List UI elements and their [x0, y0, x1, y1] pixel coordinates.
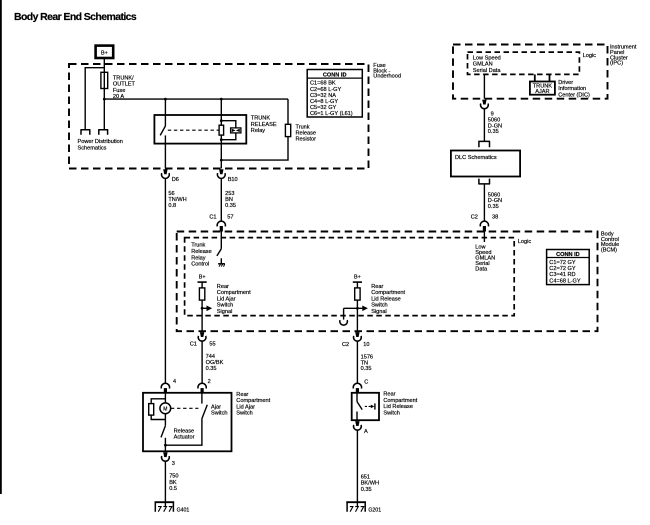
svg-text:Trunk: Trunk	[296, 124, 310, 130]
wire 750 BK	[164, 461, 166, 507]
svg-text:Compartment: Compartment	[217, 290, 251, 296]
label wire 744 OG/BK 0.35	[206, 354, 224, 372]
svg-text:2: 2	[208, 379, 211, 385]
label wire 56 TN/WH 0.8	[168, 191, 186, 209]
svg-text:Actuator: Actuator	[174, 435, 195, 441]
svg-text:Power Distribution: Power Distribution	[78, 139, 123, 145]
svg-text:C2: C2	[342, 342, 349, 348]
ajar switch blade	[202, 405, 207, 419]
svg-text:0.35: 0.35	[206, 366, 217, 372]
release actuator switch blade	[161, 426, 165, 438]
svg-text:Schematics: Schematics	[78, 146, 107, 152]
svg-text:Lid Release: Lid Release	[371, 296, 401, 302]
svg-text:Resistor: Resistor	[296, 137, 317, 143]
svg-text:57: 57	[227, 215, 233, 221]
junction dot coil top	[220, 119, 223, 122]
label Ajar Switch	[211, 404, 227, 416]
svg-text:C3=32 NA: C3=32 NA	[310, 93, 336, 99]
svg-text:OG/BK: OG/BK	[206, 360, 224, 366]
signal arrow (ajar)	[202, 306, 212, 312]
battery feed B+ terminal	[96, 46, 114, 58]
svg-text:3: 3	[172, 461, 175, 467]
svg-text:CONN ID: CONN ID	[323, 72, 347, 78]
svg-text:Switch: Switch	[371, 303, 387, 309]
connector C1 pin 55 (BCM exit)	[190, 332, 216, 347]
svg-text:C3=41 RD: C3=41 RD	[549, 272, 575, 278]
connector B10 (fuse block exit)	[217, 169, 237, 183]
label Low Speed GMLAN Serial Data (BCM)	[475, 244, 495, 272]
wire switch to internal ground	[220, 258, 222, 263]
svg-text:Serial Data: Serial Data	[473, 68, 502, 74]
svg-text:Signal: Signal	[217, 309, 233, 315]
motor parallel element	[149, 399, 166, 420]
svg-text:Lid Ajar: Lid Ajar	[217, 296, 236, 302]
wire B+ to pull-up resistor	[201, 282, 203, 288]
svg-text:Release: Release	[191, 249, 212, 255]
wire B+ down to branch node	[103, 59, 105, 99]
wire DIC stub right	[549, 74, 551, 81]
relay suppression element box	[231, 128, 241, 133]
wire DIC stub left	[534, 74, 536, 81]
wire 1576 TN	[356, 341, 358, 383]
svg-text:Logic: Logic	[518, 239, 532, 245]
connector C1 pin 57 (BCM entry)	[209, 215, 233, 232]
wire actuator switch to pin 3	[164, 438, 166, 452]
wire pull-up to BCM exit (release)	[356, 300, 358, 331]
wire bus down into relay (switch side)	[164, 99, 166, 126]
relay K1 TRUNK RELEASE relay box	[154, 115, 246, 144]
wire 744 OG/BK	[201, 341, 203, 383]
svg-text:Lid Ajar: Lid Ajar	[236, 404, 255, 410]
connector 9 (IPC exit)	[481, 100, 494, 118]
svg-text:0.5: 0.5	[169, 486, 177, 492]
wire resistor to coil output	[221, 137, 288, 161]
body control module BCM dashed box	[177, 232, 598, 332]
label TRUNK RELEASE Relay	[251, 116, 277, 135]
svg-text:Rear: Rear	[383, 392, 395, 398]
wire branch to logic input socket	[343, 308, 345, 319]
svg-text:253: 253	[225, 191, 234, 197]
svg-text:AJAR: AJAR	[535, 89, 549, 95]
svg-text:DLC Schematics: DLC Schematics	[455, 155, 497, 161]
svg-text:4: 4	[173, 379, 176, 385]
svg-text:OUTLET: OUTLET	[113, 81, 136, 87]
svg-text:Lid Release: Lid Release	[383, 404, 413, 410]
junction dot relay switch feed	[164, 98, 167, 101]
label Low Speed GMLAN Serial Data (IPC)	[473, 56, 502, 74]
wire 5060 D-GN lower	[483, 184, 485, 221]
wire bus to power distribution bracket 2	[103, 99, 105, 130]
wire 56 TN/WH left run	[164, 179, 166, 384]
connector C2 pin 10 (BCM exit)	[342, 332, 370, 348]
wire ajar switch return	[165, 419, 202, 446]
svg-text:Fuse: Fuse	[113, 88, 125, 94]
wire branch to power distribution bracket 1	[85, 68, 104, 130]
connector pin C (release switch entry)	[353, 380, 368, 393]
label Power Distribution Schematics	[78, 139, 123, 151]
connector C2 pin 38 (BCM entry)	[471, 214, 499, 231]
resistor R trunk release resistor	[285, 124, 290, 136]
svg-text:Trunk: Trunk	[191, 243, 205, 249]
label Release Actuator	[174, 428, 195, 440]
label Rear Compartment Lid Ajar Switch	[236, 392, 270, 417]
svg-text:TN/WH: TN/WH	[168, 197, 186, 203]
junction dot coil bottom	[220, 138, 223, 141]
svg-text:Relay: Relay	[191, 255, 206, 261]
svg-text:Driver: Driver	[558, 80, 573, 86]
svg-text:C6=1 L-GY (L61): C6=1 L-GY (L61)	[310, 111, 353, 117]
svg-text:GMLAN: GMLAN	[473, 62, 493, 68]
wire 5060 D-GN upper	[483, 109, 485, 142]
wire coil suppression loop	[221, 121, 236, 140]
junction dot relay coil feed	[220, 98, 223, 101]
svg-text:Compartment: Compartment	[236, 398, 270, 404]
instrument panel cluster IPC dashed box	[453, 45, 608, 99]
svg-text:Compartment: Compartment	[371, 290, 405, 296]
B+ pull-up (release switch signal)	[353, 275, 362, 283]
svg-text:D6: D6	[172, 177, 179, 183]
CONN ID table (fuse block)	[307, 70, 362, 118]
svg-text:750: 750	[169, 474, 178, 480]
svg-text:C2=72 GY: C2=72 GY	[549, 266, 576, 272]
wire GMLAN from IPC logic	[483, 74, 485, 98]
svg-text:Control: Control	[191, 262, 209, 268]
svg-text:Ajar: Ajar	[211, 404, 221, 410]
svg-text:0.35: 0.35	[361, 366, 372, 372]
momentary actuator bar	[374, 403, 376, 409]
DLC schematics box	[451, 151, 520, 177]
label wire 651 BK/WH 0.35	[361, 474, 379, 493]
svg-text:B10: B10	[228, 177, 238, 183]
svg-text:C1: C1	[190, 342, 197, 348]
svg-text:BK/WH: BK/WH	[361, 481, 379, 487]
wire coil output	[220, 135, 222, 168]
svg-text:651: 651	[361, 474, 370, 480]
rear compartment lid release switch box	[352, 393, 379, 420]
wire B+ to pull-up resistor (release)	[356, 282, 358, 288]
svg-text:B+: B+	[354, 275, 361, 281]
off-page connector bracket (power distribution feed 1)	[80, 130, 90, 135]
wire 651 BK/WH	[356, 430, 358, 507]
svg-text:0.35: 0.35	[225, 203, 236, 209]
label Rear Compartment Lid Release Switch	[383, 392, 417, 417]
connector pin 2 (actuator entry)	[198, 379, 211, 393]
svg-text:Switch: Switch	[211, 411, 227, 417]
connector pin A (release switch exit)	[354, 421, 369, 435]
svg-text:B+: B+	[101, 51, 108, 57]
svg-text:55: 55	[209, 342, 215, 348]
TRUNK AJAR indicator box	[530, 82, 555, 95]
label Fuse Block - Underhood	[373, 63, 401, 80]
svg-text:Body Rear End Schematics: Body Rear End Schematics	[14, 11, 137, 23]
junction dot resistor return	[220, 159, 223, 162]
label Body Control Module (BCM)	[601, 232, 619, 254]
suppression bowtie glyph	[232, 129, 240, 132]
svg-text:(IPC): (IPC)	[610, 61, 623, 67]
svg-text:38: 38	[492, 214, 498, 220]
BCM logic dashed box	[185, 238, 515, 316]
svg-text:0.35: 0.35	[488, 204, 499, 210]
label Driver Information Center (DIC)	[558, 80, 590, 99]
wire pin4 to motor	[164, 393, 166, 403]
svg-text:Rear: Rear	[217, 284, 229, 290]
label wire 253 BN 0.35	[225, 191, 236, 209]
wire switch to pin A	[356, 412, 358, 421]
B+ pull-up (ajar switch signal)	[198, 275, 207, 283]
label wire 5060 D-GN 0.35 (upper)	[488, 118, 502, 136]
trunk release relay control switch blade	[217, 249, 221, 256]
label wire 1576 TN 0.35	[361, 355, 373, 373]
connector D6 (fuse block exit)	[162, 169, 179, 183]
CONN ID table (BCM)	[547, 250, 590, 285]
wire bus to resistor	[287, 99, 289, 124]
svg-text:C1=68 BK: C1=68 BK	[310, 81, 336, 87]
wire relay switch output	[164, 135, 166, 168]
svg-text:Relay: Relay	[251, 128, 266, 134]
off-page bracket to DLC (top)	[478, 141, 490, 147]
junction dot actuator return	[164, 444, 167, 447]
wire 253 BN	[220, 179, 222, 222]
IPC logic dashed box	[468, 52, 580, 74]
svg-text:G401: G401	[177, 508, 190, 514]
svg-text:Signal: Signal	[371, 309, 387, 315]
connector pin 4 (actuator entry)	[161, 379, 176, 393]
svg-text:Rear: Rear	[371, 284, 383, 290]
ground G201	[346, 502, 381, 514]
wire pin C to switch	[356, 393, 358, 402]
motor M release actuator	[160, 403, 171, 414]
svg-text:10: 10	[363, 342, 369, 348]
label Rear Compartment Lid Release Switch Signal	[371, 284, 405, 315]
off-page connector bracket (power distribution feed 2)	[98, 130, 108, 135]
svg-text:G201: G201	[368, 508, 381, 514]
momentary actuator arrow	[371, 405, 375, 409]
junction dot release signal	[356, 307, 359, 310]
resistor pull-up (release)	[355, 288, 360, 300]
svg-text:A: A	[364, 429, 368, 435]
wire motor to actuator switch	[164, 414, 166, 426]
svg-text:Switch: Switch	[383, 410, 399, 416]
signal arrow (release)	[344, 306, 368, 312]
release switch blade	[357, 402, 362, 410]
svg-text:Compartment: Compartment	[383, 398, 417, 404]
label Trunk Release Relay Control	[191, 243, 212, 268]
svg-text:TRUNK: TRUNK	[251, 116, 271, 122]
label wire 5060 D-GN 0.35 (lower)	[488, 192, 502, 210]
svg-text:C4=68 L-GY: C4=68 L-GY	[549, 278, 581, 284]
connector pin 3 (actuator exit)	[162, 452, 175, 467]
resistor pull-up (ajar)	[199, 288, 204, 300]
svg-text:0.35: 0.35	[361, 487, 372, 493]
socket arc logic input	[340, 320, 348, 325]
svg-text:BK: BK	[169, 480, 177, 486]
svg-text:Data: Data	[475, 267, 488, 273]
fuse block underhood dashed box	[69, 64, 369, 169]
svg-text:0.35: 0.35	[488, 129, 499, 135]
junction dot fuse node	[103, 98, 106, 101]
svg-text:C2=68 L-GY: C2=68 L-GY	[310, 87, 342, 93]
svg-text:C4=8 L-GY: C4=8 L-GY	[310, 99, 338, 105]
mechanical link dashes (ajar)	[171, 407, 199, 409]
svg-text:(BCM): (BCM)	[601, 248, 617, 254]
svg-text:56: 56	[168, 191, 174, 197]
ground G401	[155, 502, 190, 514]
svg-text:CONN ID: CONN ID	[556, 252, 580, 258]
svg-text:Logic: Logic	[583, 53, 597, 59]
svg-text:C2: C2	[471, 214, 478, 220]
svg-text:Release: Release	[296, 131, 317, 137]
wire horizontal B+ bus	[104, 98, 288, 100]
label Trunk Release Resistor	[296, 124, 317, 142]
wire pull-up to BCM exit	[201, 300, 203, 331]
wire GMLAN into BCM logic	[483, 232, 485, 243]
svg-text:Information: Information	[558, 86, 586, 92]
relay mechanical link dashes	[168, 129, 219, 131]
svg-text:RELEASE: RELEASE	[251, 122, 277, 128]
svg-text:BN: BN	[225, 197, 233, 203]
relay switch blade	[160, 126, 165, 135]
svg-text:Center (DIC): Center (DIC)	[558, 92, 590, 98]
wire trunk release relay control into BCM	[220, 232, 222, 249]
svg-text:Release: Release	[174, 428, 195, 434]
svg-text:TRUNK/: TRUNK/	[113, 75, 134, 81]
page left border	[0, 0, 2, 494]
svg-text:Underhood: Underhood	[373, 74, 401, 80]
wire bus down into relay (coil side)	[220, 99, 222, 125]
svg-text:Switch: Switch	[217, 303, 233, 309]
label Rear Compartment Lid Ajar Switch Signal	[217, 284, 251, 315]
svg-text:C5=32 GY: C5=32 GY	[310, 105, 337, 111]
internal ground (BCM)	[218, 264, 225, 267]
svg-text:Rear: Rear	[236, 392, 248, 398]
svg-text:744: 744	[206, 354, 215, 360]
junction dot ajar signal	[201, 307, 204, 310]
svg-text:C1: C1	[209, 215, 216, 221]
label wire 750 BK 0.5	[169, 474, 178, 492]
svg-text:B+: B+	[199, 275, 206, 281]
fuse F TRUNK/OUTLET 20A	[101, 72, 136, 100]
svg-text:M: M	[163, 406, 167, 412]
svg-text:C1=72 GY: C1=72 GY	[549, 260, 576, 266]
svg-text:C: C	[364, 380, 368, 386]
rear compartment lid ajar switch box	[143, 393, 232, 452]
svg-text:0.8: 0.8	[168, 203, 176, 209]
svg-text:Switch: Switch	[236, 411, 252, 417]
label Instrument Panel Cluster (IPC)	[610, 45, 637, 67]
wire pin2 to ajar switch	[201, 393, 203, 404]
off-page bracket from DLC (bottom)	[478, 179, 490, 184]
svg-text:Low Speed: Low Speed	[473, 56, 501, 62]
momentary actuator dashes	[365, 405, 371, 407]
relay coil	[219, 125, 224, 135]
